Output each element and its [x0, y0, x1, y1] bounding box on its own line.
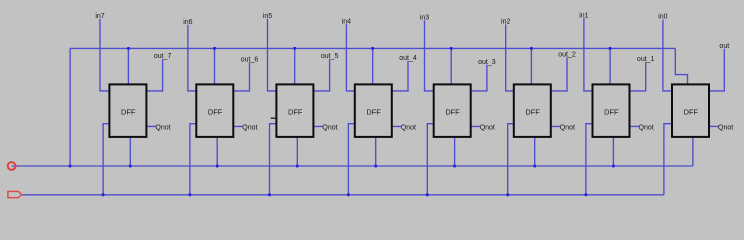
svg-text:in5: in5 [263, 13, 272, 20]
svg-text:out_3: out_3 [478, 59, 496, 66]
svg-text:out_1: out_1 [637, 56, 655, 63]
svg-text:DFF: DFF [288, 107, 303, 116]
svg-text:Qnot: Qnot [718, 125, 733, 132]
svg-text:in2: in2 [501, 19, 510, 26]
svg-text:DFF: DFF [684, 107, 699, 116]
svg-text:DFF: DFF [525, 107, 540, 116]
svg-text:Qnot: Qnot [322, 125, 337, 132]
svg-text:Qnot: Qnot [155, 125, 170, 132]
svg-text:Qnot: Qnot [639, 125, 654, 132]
svg-text:Qnot: Qnot [401, 125, 416, 132]
svg-text:Qnot: Qnot [242, 125, 257, 132]
svg-text:in7: in7 [95, 13, 104, 20]
svg-text:DFF: DFF [366, 107, 381, 116]
svg-text:out_2: out_2 [558, 52, 576, 59]
svg-text:Qnot: Qnot [560, 125, 575, 132]
svg-text:DFF: DFF [604, 107, 619, 116]
svg-text:out_6: out_6 [241, 56, 259, 63]
svg-text:Qnot: Qnot [480, 125, 495, 132]
svg-text:DFF: DFF [121, 107, 136, 116]
svg-text:out_7: out_7 [154, 53, 172, 60]
svg-text:in3: in3 [420, 15, 429, 22]
svg-text:out: out [719, 43, 729, 50]
svg-text:in0: in0 [658, 14, 667, 21]
svg-text:out_4: out_4 [399, 55, 417, 62]
svg-text:in1: in1 [579, 12, 588, 19]
svg-text:DFF: DFF [445, 107, 460, 116]
svg-text:in6: in6 [183, 19, 192, 26]
svg-text:DFF: DFF [208, 107, 223, 116]
svg-text:out_5: out_5 [321, 53, 339, 60]
svg-text:in4: in4 [342, 18, 351, 25]
